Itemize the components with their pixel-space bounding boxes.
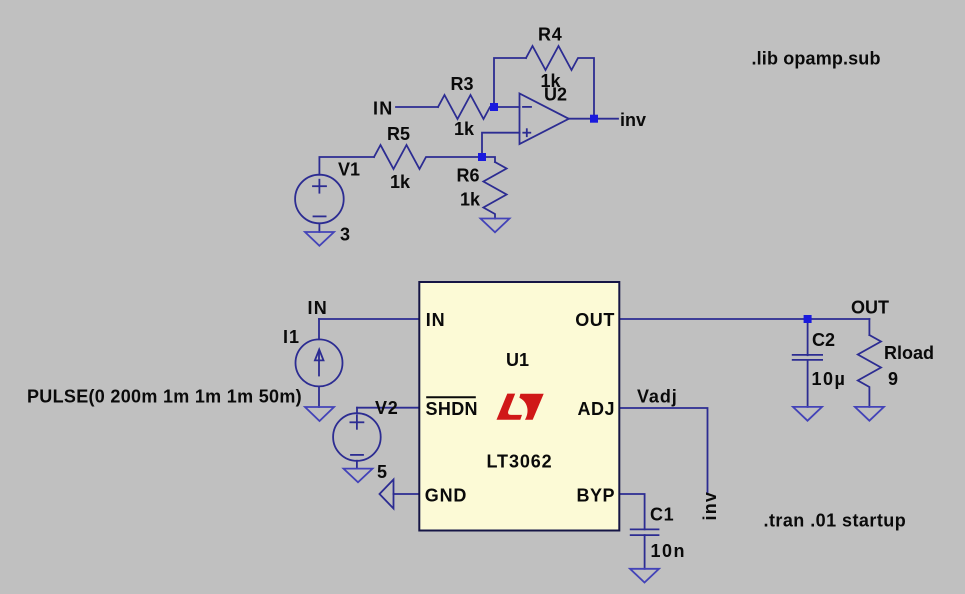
svg-text:OUT: OUT: [851, 298, 889, 318]
svg-text:U2: U2: [544, 85, 567, 105]
svg-text:1k: 1k: [390, 172, 411, 192]
svg-text:GND: GND: [425, 486, 467, 506]
svg-text:C1: C1: [650, 505, 674, 525]
svg-text:LT3062: LT3062: [487, 452, 553, 472]
svg-text:R5: R5: [387, 124, 410, 144]
svg-text:U1: U1: [506, 350, 529, 370]
svg-text:Vadj: Vadj: [637, 387, 678, 407]
svg-text:.lib opamp.sub: .lib opamp.sub: [752, 49, 881, 69]
svg-text:IN: IN: [426, 310, 446, 330]
svg-text:3: 3: [340, 225, 350, 245]
svg-text:R6: R6: [457, 166, 480, 186]
svg-text:V1: V1: [338, 160, 360, 180]
svg-text:I1: I1: [283, 327, 300, 347]
svg-text:SHDN: SHDN: [426, 399, 478, 419]
svg-text:1k: 1k: [460, 190, 481, 210]
svg-text:Rload: Rload: [884, 343, 934, 363]
svg-text:C2: C2: [812, 330, 835, 350]
svg-text:PULSE(0 200m 1m 1m 1m 50m): PULSE(0 200m 1m 1m 1m 50m): [27, 387, 302, 407]
svg-text:ADJ: ADJ: [577, 399, 615, 419]
svg-text:OUT: OUT: [575, 310, 615, 330]
svg-text:IN: IN: [373, 99, 393, 119]
svg-text:V2: V2: [375, 398, 399, 418]
svg-text:inv: inv: [620, 110, 646, 130]
svg-text:1k: 1k: [454, 119, 475, 139]
svg-text:R4: R4: [538, 25, 563, 45]
svg-text:.tran .01 startup: .tran .01 startup: [764, 511, 907, 531]
svg-text:BYP: BYP: [576, 486, 615, 506]
svg-text:10µ: 10µ: [812, 369, 847, 389]
svg-text:inv: inv: [700, 491, 720, 521]
svg-text:R3: R3: [451, 74, 474, 94]
svg-text:10n: 10n: [651, 541, 687, 561]
svg-text:IN: IN: [308, 298, 328, 318]
svg-text:5: 5: [377, 462, 387, 482]
svg-text:9: 9: [888, 369, 898, 389]
